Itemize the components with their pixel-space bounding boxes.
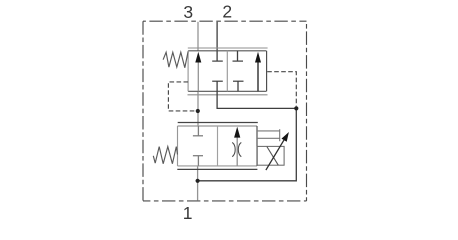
valve V1 left cell bottom blocked port T — [216, 81, 218, 91]
valve V2 right cell flow arrow — [236, 135, 238, 166]
valve V2 (throttle) overline — [178, 122, 258, 124]
wire: V1 bottom port to right bus — [217, 91, 296, 108]
junction node right bus — [294, 106, 298, 110]
valve V1 left cell flow arrow — [197, 60, 199, 91]
valve V2 body — [178, 125, 258, 127]
valve V1 position divider — [226, 51, 228, 92]
valve V1 right pilot line (dashed) — [267, 72, 296, 107]
wire: right bus down and across to port 1 — [198, 108, 297, 180]
adjuster stem channel — [257, 130, 280, 132]
wire: valve V1 to valve V2 (node between) — [197, 91, 199, 126]
wire: port 2 line — [216, 22, 218, 51]
valve V1 left pilot line (dashed) — [168, 82, 195, 111]
enclosure boundary (dash-dot cartridge envelope) — [143, 21, 307, 201]
svg-text:2: 2 — [222, 2, 232, 22]
valve V1 spring — [163, 52, 188, 68]
valve V1 (pressure compensator spool) overline — [188, 47, 268, 49]
valve V1 body — [188, 50, 266, 52]
svg-text:1: 1 — [183, 203, 193, 223]
adjustability arrow (diagonal) — [266, 138, 285, 170]
valve V2 throttle arcs — [232, 142, 235, 156]
valve V2 left cell bottom blocked port T — [197, 156, 199, 166]
valve V1 right cell flow arrow — [257, 60, 259, 91]
svg-text:3: 3 — [183, 2, 193, 22]
valve V1 underline — [188, 94, 268, 96]
valve V2 underline — [177, 168, 257, 170]
adjuster solenoid box — [257, 146, 284, 165]
valve V1 right cell bottom blocked port T — [237, 81, 239, 91]
wire: port 3 line — [197, 22, 199, 51]
valve V2 spring — [153, 147, 177, 164]
valve V1 left cell top blocked port T — [216, 51, 218, 61]
valve V2 left cell top blocked port T — [197, 126, 199, 136]
wire: port 1 line — [197, 166, 199, 201]
valve V1 right cell top blocked port T — [237, 51, 239, 61]
junction node port 1 — [196, 179, 200, 183]
solenoid diagonal — [267, 147, 278, 166]
valve V2 position divider — [217, 126, 219, 166]
junction node on port3-port1 line (pilot tap) — [196, 109, 200, 113]
